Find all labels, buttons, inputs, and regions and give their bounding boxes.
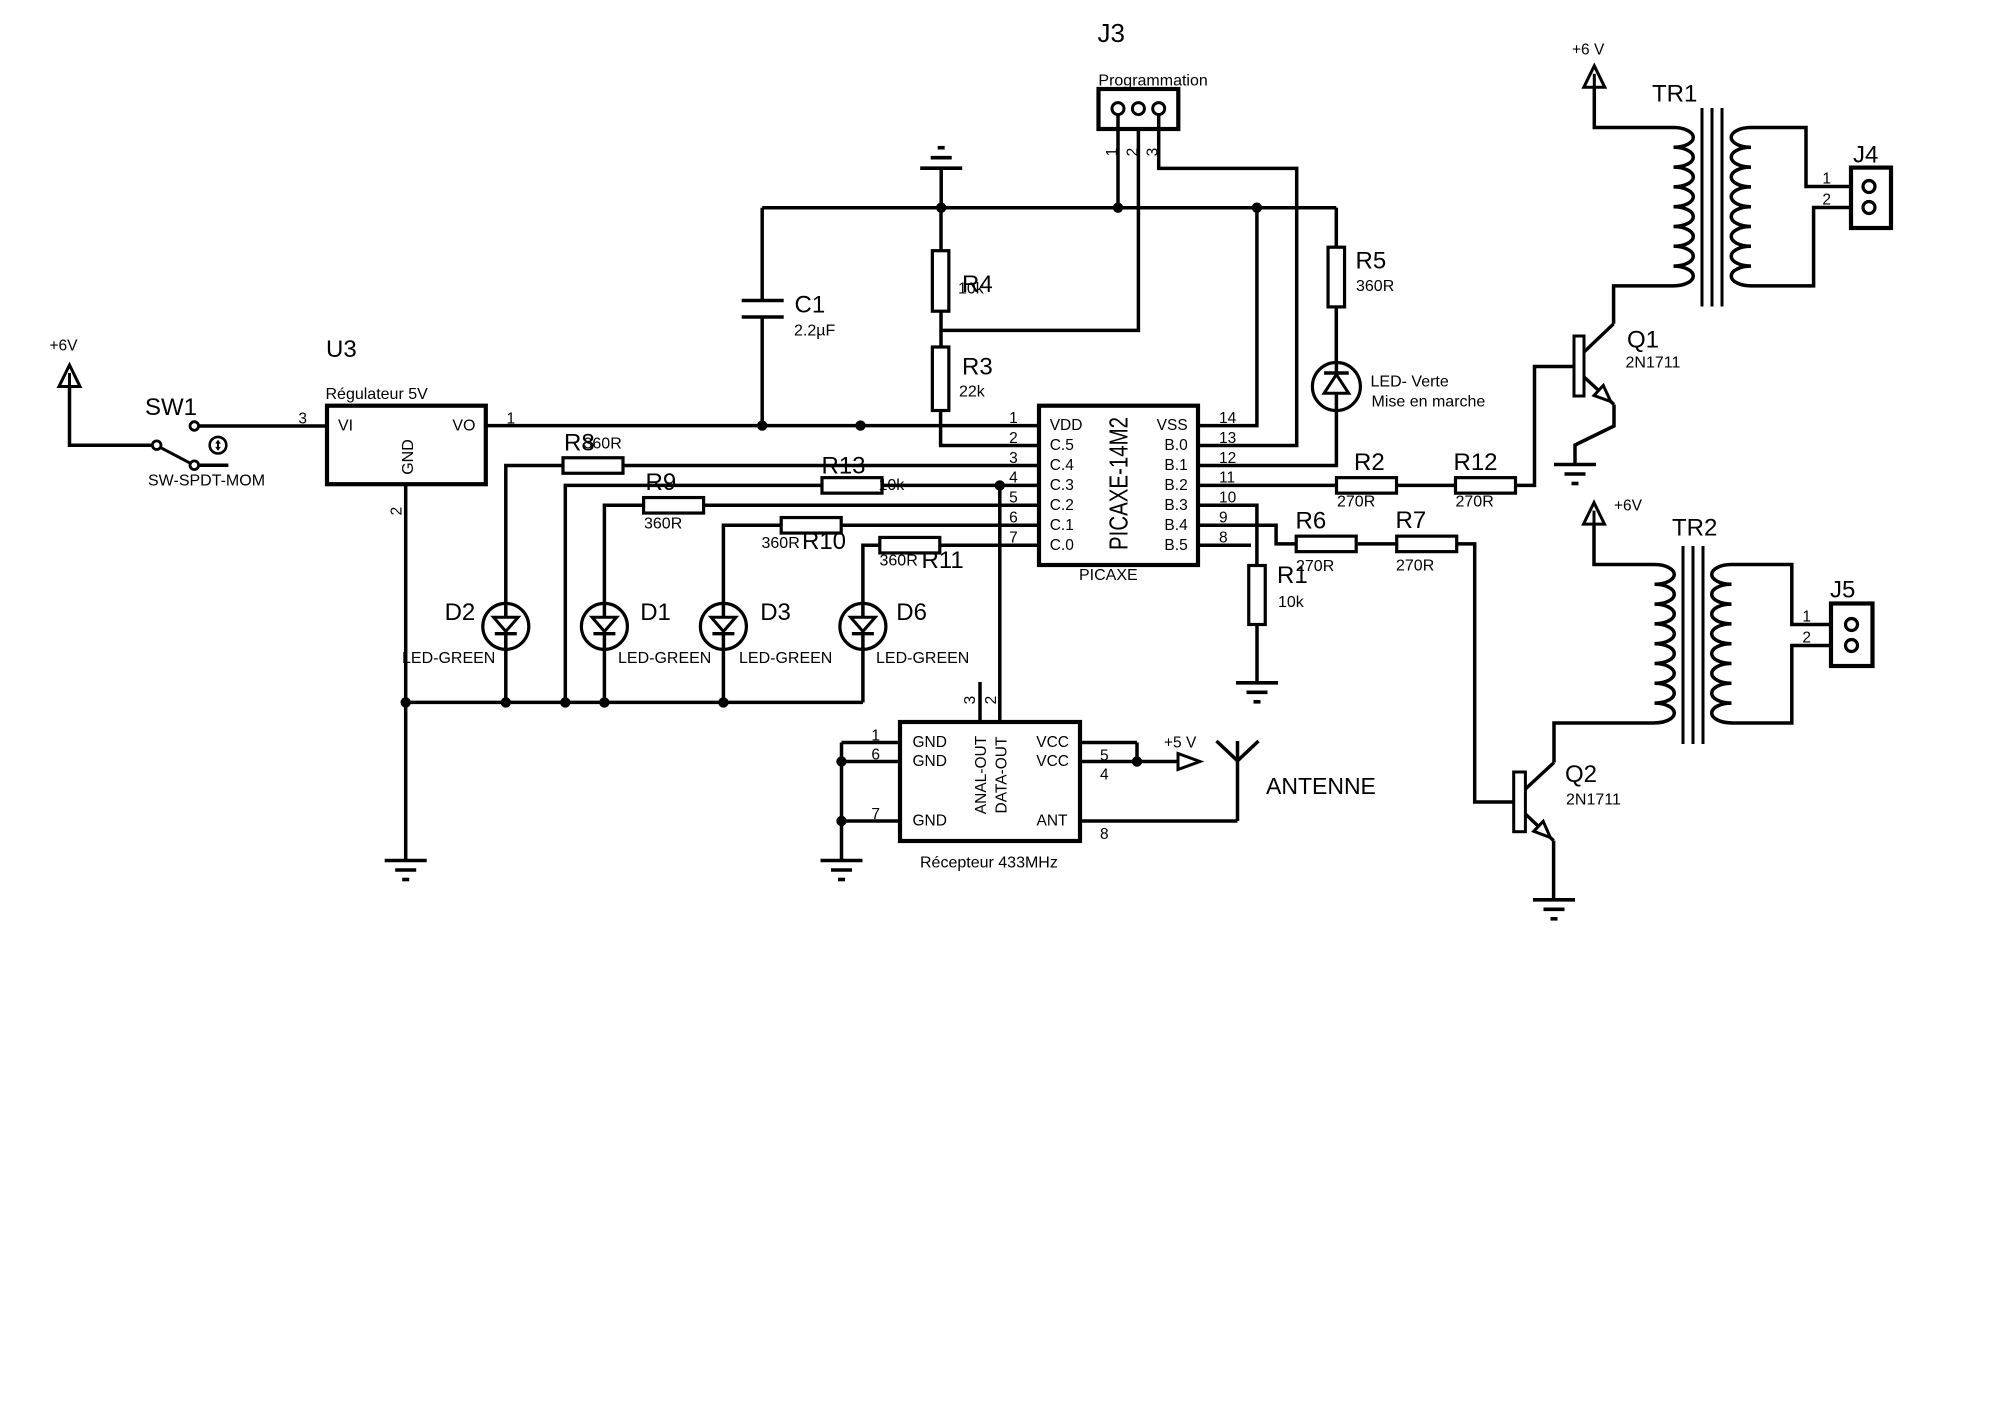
wire C.1 net (pin6) to R10: [842, 524, 1039, 528]
svg-text:ANAL-OUT: ANAL-OUT: [973, 735, 990, 814]
ground (Q2 emitter): [1533, 898, 1575, 902]
resistor R13 10k: [822, 478, 882, 494]
resistor R6 270R: [1296, 536, 1356, 552]
svg-text:VCC: VCC: [1036, 753, 1069, 770]
resistor R4 10k: [939, 208, 943, 251]
svg-text:Programmation: Programmation: [1098, 73, 1207, 90]
svg-text:4: 4: [1100, 767, 1109, 784]
svg-text:GND: GND: [913, 813, 947, 830]
svg-text:VCC: VCC: [1036, 734, 1069, 751]
svg-text:SW1: SW1: [145, 394, 197, 421]
svg-text:360R: 360R: [1356, 278, 1394, 295]
svg-text:22k: 22k: [959, 384, 986, 401]
svg-text:TR2: TR2: [1672, 515, 1717, 542]
antenna ANTENNE: [1236, 741, 1240, 821]
wire B.4 (pin9) to R6: [1198, 525, 1296, 544]
ground (U3): [385, 859, 427, 863]
svg-text:360R: 360R: [584, 436, 622, 453]
wire TR1 secondary bottom to J4 pin2: [1751, 208, 1863, 286]
svg-text:1: 1: [1802, 609, 1811, 626]
svg-text:R5: R5: [1356, 248, 1387, 275]
svg-text:3: 3: [962, 696, 979, 705]
svg-text:B.1: B.1: [1164, 457, 1187, 474]
svg-text:VI: VI: [338, 418, 353, 435]
svg-text:LED-GREEN: LED-GREEN: [739, 650, 832, 667]
svg-text:B.2: B.2: [1164, 477, 1187, 494]
resistor R11 360R: [880, 537, 940, 553]
capacitor C1 2.2uF: [760, 208, 764, 301]
svg-text:Mise en marche: Mise en marche: [1372, 394, 1486, 411]
svg-text:R6: R6: [1296, 508, 1327, 535]
ground (top, inverted): [920, 166, 962, 170]
svg-text:VSS: VSS: [1157, 417, 1188, 434]
wire R13 to cathode bus: [565, 485, 822, 702]
wire TR1 secondary top to J4 pin1: [1751, 128, 1863, 187]
wire TR1 primary bottom to Q1 collector: [1614, 286, 1674, 324]
wire TR2 secondary bottom to J5 pin2: [1732, 646, 1846, 724]
wire receiver pin2 DATA-OUT to C.3: [998, 485, 1002, 722]
IC PICAXE-14M2: [1039, 406, 1198, 565]
resistor R1 10k: [1249, 566, 1266, 625]
svg-text:2: 2: [1124, 148, 1141, 157]
wire R9 to D1: [604, 505, 643, 603]
svg-text:270R: 270R: [1396, 558, 1434, 575]
wire LED cathode bus: [406, 701, 863, 705]
wire R10 to D3: [723, 525, 781, 603]
power +6V arrow (TR2): [1584, 503, 1605, 524]
svg-text:LED-GREEN: LED-GREEN: [402, 650, 495, 667]
svg-text:1: 1: [1009, 410, 1018, 427]
node C1 junction: [757, 420, 767, 430]
svg-text:D2: D2: [445, 599, 476, 626]
node bus junction VSS: [1252, 203, 1262, 213]
svg-text:J3: J3: [1098, 18, 1125, 48]
svg-text:270R: 270R: [1337, 494, 1375, 511]
svg-text:B.0: B.0: [1164, 437, 1188, 454]
svg-text:270R: 270R: [1456, 494, 1494, 511]
svg-text:13: 13: [1219, 430, 1236, 447]
svg-text:3: 3: [298, 410, 307, 427]
svg-text:2N1711: 2N1711: [1626, 355, 1681, 372]
svg-text:R12: R12: [1454, 449, 1498, 476]
wire R3 to PICAXE pin2 C.5: [941, 411, 1039, 446]
wire R12 to Q1 base: [1515, 367, 1574, 486]
wire B.5 (pin8) stub: [1198, 543, 1251, 547]
svg-text:8: 8: [1100, 826, 1109, 843]
svg-text:360R: 360R: [644, 516, 682, 533]
svg-text:R10: R10: [802, 528, 846, 555]
wire B.3 (pin10) to R1: [1198, 505, 1257, 565]
svg-text:R3: R3: [962, 354, 993, 381]
wire R5 to LED verte: [1335, 307, 1339, 363]
indicator momentary symbol: [210, 437, 227, 454]
node bus junctions: [401, 697, 411, 707]
svg-text:GND: GND: [400, 439, 417, 475]
wire R8 to D2: [506, 466, 563, 604]
svg-text:R7: R7: [1396, 507, 1427, 534]
svg-text:270R: 270R: [1296, 558, 1334, 575]
connector J5: [1831, 604, 1873, 667]
svg-text:1: 1: [507, 410, 516, 427]
wire D3 cathode to bus: [722, 649, 726, 702]
wire C.0 net (pin7) to R11: [941, 543, 1039, 547]
svg-text:Régulateur 5V: Régulateur 5V: [326, 386, 429, 403]
resistor R10 360R: [781, 518, 841, 534]
svg-text:+6 V: +6 V: [1572, 42, 1605, 59]
wire VO/VDD +5V rail, pin 1: [486, 424, 1039, 428]
svg-text:D6: D6: [896, 599, 927, 626]
wire R2 to R12: [1397, 484, 1456, 488]
transistor Q2 2N1711: [1525, 763, 1554, 790]
LED D1 LED-GREEN: [581, 603, 627, 649]
wire receiver GND pins to ground: [842, 741, 901, 745]
wire C.3 net (pin4) to R13: [878, 484, 1039, 488]
svg-text:R11: R11: [922, 547, 964, 574]
svg-text:C1: C1: [795, 292, 826, 319]
wire U3 GND down to ground: [404, 484, 408, 860]
svg-text:360R: 360R: [880, 553, 918, 570]
LED D-verte Mise en marche: [1312, 363, 1360, 411]
svg-text:2: 2: [389, 507, 406, 516]
svg-text:LED-GREEN: LED-GREEN: [618, 650, 711, 667]
wire receiver ANT pin8 to antenna: [1080, 819, 1238, 823]
ground (receiver): [821, 859, 863, 863]
wire R11 to D6: [863, 545, 880, 603]
wire VSS (pin14) to bus: [1198, 208, 1257, 426]
resistor R9 360R: [644, 498, 704, 514]
svg-text:J4: J4: [1853, 142, 1878, 169]
wire R7 to Q2 base: [1457, 544, 1514, 802]
connector J3 Programmation: [1099, 89, 1179, 129]
node bus junction J3 pin1: [1113, 203, 1123, 213]
svg-text:+6V: +6V: [1614, 498, 1643, 515]
svg-text:R2: R2: [1354, 449, 1385, 476]
wire R4 to R3 and J3 pin2 jog: [941, 115, 1138, 331]
svg-text:B.5: B.5: [1164, 537, 1187, 554]
wire D2 cathode to bus: [504, 649, 508, 702]
svg-text:LED- Verte: LED- Verte: [1371, 374, 1449, 391]
resistor R3 22k: [932, 347, 949, 411]
svg-text:Q1: Q1: [1627, 327, 1659, 354]
svg-text:2: 2: [983, 696, 1000, 705]
LED D6 LED-GREEN: [840, 603, 886, 649]
svg-text:R9: R9: [646, 469, 677, 496]
svg-text:J5: J5: [1830, 577, 1855, 604]
connector J4: [1851, 168, 1891, 228]
svg-text:B.3: B.3: [1164, 497, 1187, 514]
svg-text:2.2µF: 2.2µF: [794, 323, 835, 340]
regulator U3 Regulateur 5V: [327, 406, 486, 485]
svg-text:GND: GND: [913, 753, 947, 770]
resistor R2 270R: [1337, 478, 1397, 494]
node bus junction R4: [936, 203, 946, 213]
wire R1 to ground: [1255, 625, 1259, 683]
wire +6V to switch common: [70, 387, 153, 446]
LED D2 LED-GREEN: [483, 603, 529, 649]
svg-text:C.3: C.3: [1050, 477, 1074, 494]
power +5V arrow: [1178, 754, 1200, 770]
svg-text:ANTENNE: ANTENNE: [1266, 773, 1376, 799]
svg-text:B.4: B.4: [1164, 517, 1188, 534]
svg-text:D1: D1: [640, 599, 671, 626]
IC Recepteur 433MHz: [900, 722, 1080, 841]
svg-text:D3: D3: [760, 599, 791, 626]
power +6 V arrow (TR1): [1584, 66, 1605, 88]
svg-text:1: 1: [1822, 171, 1831, 188]
wire C.4 net (pin3) to R8: [622, 464, 1039, 468]
wire R6 to R7: [1358, 542, 1397, 546]
resistor R5 360R: [1335, 208, 1339, 248]
resistor R12 270R: [1456, 478, 1516, 494]
svg-text:PICAXE-14M2: PICAXE-14M2: [1104, 417, 1134, 550]
power +6V supply arrow (left): [59, 365, 80, 387]
svg-text:+6V: +6V: [50, 338, 79, 355]
switch SW1 SW-SPDT-MOM: [152, 441, 161, 450]
svg-text:Q2: Q2: [1565, 761, 1597, 788]
wire top bus: [762, 206, 1336, 210]
svg-text:10k: 10k: [879, 477, 906, 494]
wire receiver pin3 stub: [978, 682, 982, 722]
node C.3 / DATA-OUT junction: [995, 480, 1005, 490]
svg-text:C.5: C.5: [1050, 437, 1074, 454]
wire +6V to TR1 primary top: [1594, 87, 1673, 127]
svg-text:C.0: C.0: [1050, 537, 1075, 554]
LED D3 LED-GREEN: [700, 603, 746, 649]
resistor R8 360R: [563, 458, 623, 474]
wire +6V to TR2 primary top: [1594, 524, 1655, 564]
node rail junction: [855, 420, 865, 430]
wire SW1 to U3 VI, pin 3: [199, 424, 327, 428]
svg-text:ANT: ANT: [1037, 813, 1069, 830]
svg-text:GND: GND: [913, 734, 947, 751]
svg-text:360R: 360R: [762, 535, 800, 552]
svg-text:LED-GREEN: LED-GREEN: [876, 650, 969, 667]
wire C.2 net (pin5) to R9: [703, 504, 1039, 508]
transistor Q1 2N1711: [1584, 324, 1614, 352]
wire SW1 lower throw stub: [199, 463, 229, 467]
svg-text:DATA-OUT: DATA-OUT: [994, 736, 1011, 813]
svg-text:VO: VO: [452, 418, 475, 435]
svg-text:2: 2: [1009, 430, 1018, 447]
wire TR2 primary bottom to Q2 collector: [1554, 723, 1655, 763]
svg-text:TR1: TR1: [1652, 81, 1697, 108]
svg-text:+5 V: +5 V: [1164, 735, 1197, 752]
svg-text:SW-SPDT-MOM: SW-SPDT-MOM: [148, 473, 265, 490]
wire B.2 (pin11) to R2: [1198, 484, 1337, 488]
svg-text:PICAXE: PICAXE: [1079, 567, 1138, 584]
ground (Q1 emitter): [1554, 463, 1596, 467]
svg-text:2: 2: [1822, 192, 1831, 209]
wire ground stub to bus: [939, 168, 943, 208]
svg-text:2: 2: [1802, 630, 1811, 647]
svg-text:U3: U3: [326, 336, 357, 363]
ground (R1): [1236, 681, 1278, 685]
svg-text:C.2: C.2: [1050, 497, 1074, 514]
wire TR2 secondary top to J5 pin1: [1732, 565, 1846, 625]
svg-text:10k: 10k: [1278, 594, 1305, 611]
svg-text:2N1711: 2N1711: [1566, 792, 1621, 809]
wire B.1 (pin12) to LED verte: [1198, 411, 1336, 466]
resistor R7 270R: [1397, 536, 1457, 552]
wire D1 cathode to bus: [603, 649, 607, 702]
svg-text:R13: R13: [822, 453, 866, 480]
wire J3 pin1 to bus: [1116, 115, 1120, 208]
svg-text:C.4: C.4: [1050, 457, 1075, 474]
wire D6 cathode to bus: [861, 649, 865, 702]
svg-text:VDD: VDD: [1050, 417, 1083, 434]
svg-text:C.1: C.1: [1050, 517, 1074, 534]
wire receiver VCC pins to +5V: [1080, 741, 1137, 745]
svg-text:10k: 10k: [958, 281, 985, 298]
svg-text:Récepteur 433MHz: Récepteur 433MHz: [920, 855, 1058, 872]
wire J3 pin3 to PICAXE B.0: [1159, 115, 1297, 446]
